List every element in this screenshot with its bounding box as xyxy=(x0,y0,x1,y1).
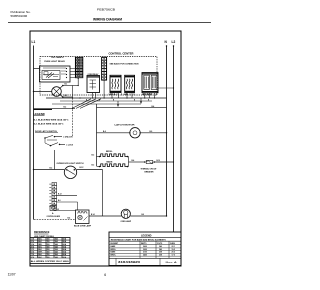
svg-text:200: 200 xyxy=(47,257,50,259)
wire L2 bus xyxy=(173,46,175,233)
part number row xyxy=(115,258,117,265)
wire P1 bottom drop xyxy=(78,78,79,79)
bake element xyxy=(100,164,128,167)
svg-text:B-4: B-4 xyxy=(68,217,71,220)
svg-text:B-6: B-6 xyxy=(58,200,61,202)
wire drop x54.5 xyxy=(54,150,56,170)
svg-text:LATCH MOTOR: LATCH MOTOR xyxy=(115,124,136,127)
svg-text:3 14: 3 14 xyxy=(31,243,34,246)
wire drop x102.5 xyxy=(102,170,104,217)
wire elements to thermal breaker xyxy=(129,161,145,163)
svg-text:B-1: B-1 xyxy=(65,84,68,86)
lamp top terminal xyxy=(62,85,64,87)
latch switch link xyxy=(44,138,46,143)
legend table box xyxy=(109,232,181,266)
wire bus y104 xyxy=(52,103,141,105)
wire bus y98 xyxy=(46,97,167,99)
wire breaker to L2 xyxy=(154,161,173,163)
wire L1 to relay board xyxy=(34,68,40,70)
wire strip bottom stub xyxy=(53,208,55,211)
wire to latch motor left xyxy=(97,132,130,134)
reference table grid xyxy=(30,238,70,264)
svg-text:B-2: B-2 xyxy=(64,107,67,109)
svg-text:5995501096: 5995501096 xyxy=(11,14,28,18)
relay K2 xyxy=(125,75,135,92)
svg-text:SEE BACK FOR CONNECTION: SEE BACK FOR CONNECTION xyxy=(110,62,140,65)
svg-text:Rev. A: Rev. A xyxy=(166,261,178,264)
svg-text:LEGEND: LEGEND xyxy=(141,234,152,237)
wire switch to lamp drop xyxy=(77,169,103,171)
wire L1 to lamp xyxy=(34,91,52,93)
svg-text:BREAKER: BREAKER xyxy=(145,171,155,174)
relay terminal stubs xyxy=(111,93,113,99)
latch switch lock contact xyxy=(50,145,52,147)
wire B-2 from L1 bus xyxy=(34,108,76,110)
svg-text:6 14: 6 14 xyxy=(31,251,34,254)
svg-text:OVEN LAMP: OVEN LAMP xyxy=(121,220,132,223)
control center dashed box xyxy=(40,57,157,96)
wire relay3 to L2 xyxy=(157,87,174,89)
blue oven lamp assembly xyxy=(76,210,90,224)
svg-text:L2: L2 xyxy=(172,40,176,44)
svg-text:BLUE OVEN LAMP: BLUE OVEN LAMP xyxy=(74,225,92,228)
relay K3 (DLB double) xyxy=(142,73,158,93)
wire B-4 bus xyxy=(97,107,167,109)
connector P1 (double column) xyxy=(75,57,83,78)
svg-text:316443920: 316443920 xyxy=(118,261,141,264)
wire lamp junction vertical xyxy=(72,86,74,99)
svg-text:B-3: B-3 xyxy=(92,165,95,167)
svg-text:B-9: B-9 xyxy=(150,131,153,133)
connector P2 (single column) xyxy=(102,57,107,80)
svg-text:B-5: B-5 xyxy=(57,209,60,211)
wire oven lamp to N xyxy=(130,215,166,217)
svg-text:L1: L1 xyxy=(32,40,36,44)
diagonal wires xyxy=(80,99,101,109)
svg-text:11/07: 11/07 xyxy=(8,272,16,276)
latch switch unlock contact xyxy=(44,137,46,139)
wire N bus xyxy=(166,46,168,217)
terminal tick labels xyxy=(110,93,112,95)
wire strip to lamp box top xyxy=(57,201,78,203)
wire B-4 dashed to lamp box xyxy=(34,219,76,221)
oven relay K6 xyxy=(87,76,100,93)
svg-text:B-2. BLACK WIRE 14GA 150°C: B-2. BLACK WIRE 14GA 150°C xyxy=(34,123,65,126)
connector strip P3 xyxy=(52,183,57,186)
svg-text:B-1. BLACK/RED WIRE 14GA 150°C: B-1. BLACK/RED WIRE 14GA 150°C xyxy=(34,119,70,122)
svg-text:ALL WIRES COPPER 150°C AWG: ALL WIRES COPPER 150°C AWG xyxy=(31,260,70,263)
svg-text:▸ LOCK: ▸ LOCK xyxy=(66,144,74,147)
svg-text:6: 6 xyxy=(104,273,106,277)
wire bus y101 xyxy=(60,100,152,102)
control board buzzer A xyxy=(50,206,56,211)
svg-text:▸ UNLOCK: ▸ UNLOCK xyxy=(63,136,74,139)
relay board K9 xyxy=(40,66,71,82)
svg-text:4 14: 4 14 xyxy=(31,245,34,248)
relay K1 xyxy=(110,75,121,92)
thermal circuit breaker xyxy=(144,161,146,163)
svg-text:B-4: B-4 xyxy=(132,159,135,162)
svg-text:BROIL: BROIL xyxy=(106,151,113,153)
wire latch motor to N xyxy=(140,132,166,134)
wires relay board to connector P1 xyxy=(70,68,76,70)
svg-text:WIRING DIAGRAM: WIRING DIAGRAM xyxy=(93,18,122,22)
legend table columns xyxy=(139,241,141,258)
svg-text:B-2: B-2 xyxy=(50,167,53,169)
svg-text:THERMAL CIRCUIT: THERMAL CIRCUIT xyxy=(141,167,158,170)
wire L1 bus xyxy=(33,46,35,220)
wire B-2 to switch xyxy=(34,169,65,171)
oven lamp xyxy=(121,209,130,218)
oven/door light switch xyxy=(64,166,76,178)
svg-text:OVEN/DOOR LIGHT SWITCH: OVEN/DOOR LIGHT SWITCH xyxy=(57,163,85,165)
wire strip to right 1 xyxy=(57,194,78,196)
svg-text:CONTROL BOARD: CONTROL BOARD xyxy=(47,215,61,218)
arrow down 2 xyxy=(140,98,142,103)
main diagram border xyxy=(30,31,181,266)
svg-text:BAKE: BAKE xyxy=(107,160,114,163)
header rule xyxy=(8,21,211,23)
wire drop x96.5 xyxy=(96,104,98,166)
svg-text:CONTROL CENTER: CONTROL CENTER xyxy=(109,52,134,56)
svg-text:OVEN LIGHT RELAY: OVEN LIGHT RELAY xyxy=(44,60,66,63)
latch motor xyxy=(130,128,140,138)
broil element xyxy=(100,154,128,157)
svg-text:TOP LAMPS: TOP LAMPS xyxy=(51,56,65,59)
svg-text:BLK.: BLK. xyxy=(38,257,42,259)
svg-text:B-4: B-4 xyxy=(103,130,106,133)
svg-text:LEGEND: LEGEND xyxy=(34,112,45,116)
arrow down 1 xyxy=(117,101,119,106)
svg-text:DOOR LATCH SWITCH: DOOR LATCH SWITCH xyxy=(35,130,57,133)
svg-text:8 14: 8 14 xyxy=(31,256,34,259)
element left junction xyxy=(97,156,100,158)
lamp bottom terminal xyxy=(62,96,64,98)
wire lamp box to oven lamp xyxy=(89,215,122,217)
svg-text:B-12: B-12 xyxy=(58,193,62,195)
oven cavity lamp xyxy=(52,87,62,97)
svg-text:FEB756CB: FEB756CB xyxy=(97,8,115,12)
svg-text:B-4: B-4 xyxy=(152,105,155,108)
svg-text:B-9: B-9 xyxy=(142,214,145,216)
element right junction xyxy=(128,157,130,167)
wire drop x72.5 latch feed xyxy=(72,98,74,137)
svg-text:B-3: B-3 xyxy=(92,155,95,157)
svg-text:B-1: B-1 xyxy=(65,95,68,97)
